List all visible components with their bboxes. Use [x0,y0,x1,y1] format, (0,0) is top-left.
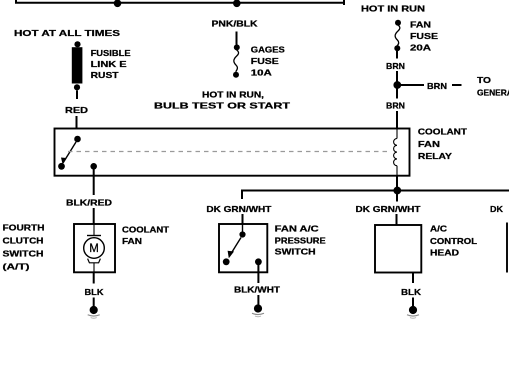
wire BLK to ground [93,298,95,307]
svg-text:CLUTCH: CLUTCH [3,236,44,246]
svg-text:BLK/RED: BLK/RED [66,197,112,207]
svg-text:LINK E: LINK E [91,59,128,69]
wire BLK/WHT to ground [257,295,259,305]
relay coil lead in [396,129,398,139]
ground (control head) [407,306,419,318]
junction dot on bus (PNK/BLK tap) [233,0,241,7]
relay coil lead out [396,166,398,176]
svg-text:A/C: A/C [430,223,447,233]
svg-text:DK GRN/WHT: DK GRN/WHT [356,204,422,214]
svg-text:FUSE: FUSE [410,31,439,41]
fusible link E top terminal dot [74,41,80,47]
wire dash to generator [452,84,462,86]
pressure switch arm arrowhead [228,251,234,258]
svg-text:FUSIBLE: FUSIBLE [91,48,131,58]
motor brush bar [87,235,101,237]
relay actuation dashed line [68,151,391,153]
wire BRN to junction [396,71,398,82]
svg-text:TO: TO [477,75,492,85]
svg-text:FAN: FAN [410,20,431,30]
svg-text:COOLANT: COOLANT [418,127,468,137]
wire relay output inside box [93,170,95,177]
wire to pressure switch [242,214,244,224]
fusible link E body [72,47,83,83]
svg-text:PNK/BLK: PNK/BLK [212,18,258,28]
ground (coolant fan) [88,306,100,318]
pressure switch common dot [239,231,245,237]
fan fuse bottom dot [394,45,400,51]
motor lead bottom [93,263,95,273]
svg-text:SWITCH: SWITCH [275,247,316,257]
relay switch arm arrowhead [61,158,67,165]
svg-text:RED: RED [65,105,88,115]
wire coolant fan to BLK [93,272,95,283]
svg-text:BLK: BLK [85,287,104,297]
pressure switch contact dot [223,258,230,265]
svg-text:FOURTH: FOURTH [3,223,45,233]
svg-text:(A/T): (A/T) [3,262,30,272]
svg-text:HOT AT ALL TIMES: HOT AT ALL TIMES [14,28,121,38]
coolant fan relay box [55,129,410,176]
svg-text:M: M [89,243,99,255]
svg-text:DK: DK [490,204,503,214]
svg-text:FAN: FAN [122,236,142,246]
partial box at right edge [506,223,508,273]
fan fuse top dot [395,20,401,26]
relay switch contact dot [58,163,65,170]
svg-text:BULB TEST OR START: BULB TEST OR START [154,101,291,111]
svg-text:FAN A/C: FAN A/C [275,223,319,233]
wire relay to BLK/RED [93,176,95,195]
svg-text:BRN: BRN [386,61,405,71]
wire control head output [412,273,414,284]
relay output contact dot [90,163,97,170]
pressure switch output dot [255,258,262,265]
wire to control head [396,214,398,225]
wire relay coil to bus junction [396,176,398,191]
svg-text:CONTROL: CONTROL [430,236,477,246]
fan fuse element [395,25,400,46]
svg-text:DK GRN/WHT: DK GRN/WHT [206,204,272,214]
junction dot on bus left [114,0,122,7]
dk grn/wht bus line [242,191,509,200]
junction node on bus [393,187,401,195]
wire BLK to ground (control head) [412,298,414,307]
svg-text:BRN: BRN [427,81,447,91]
svg-text:RUST: RUST [91,70,120,80]
fusible link E bottom terminal dot [74,84,80,90]
gages fuse element [234,50,239,72]
svg-text:FAN: FAN [418,139,440,149]
ground (pressure switch) [252,304,264,316]
relay switch common dot [74,136,81,143]
a/c control head box [375,225,421,273]
fuse block bus (cut-off box at top) [15,0,344,5]
motor M circle [84,238,105,259]
wire splice down [396,89,398,99]
svg-text:10A: 10A [251,67,272,77]
wire BLK/RED to coolant fan [93,208,95,224]
gages fuse top dot [234,44,240,50]
svg-text:HOT IN RUN,: HOT IN RUN, [202,89,264,99]
wire BRN into relay box [396,111,398,129]
fan a/c pressure switch box [219,224,267,272]
motor lower brush cup [88,259,101,263]
relay switch arm [63,142,76,163]
wire splice to BRN branch label [401,84,424,86]
svg-text:SWITCH: SWITCH [3,249,44,259]
pressure switch wire into box [242,224,244,232]
wire PNK/BLK to gages fuse [236,32,238,45]
pressure switch arm [230,238,242,257]
svg-text:GENERATOR: GENERATOR [477,88,509,98]
wire RED into relay box [76,116,78,129]
svg-text:BLK: BLK [401,287,421,297]
svg-text:HOT IN RUN: HOT IN RUN [361,3,425,13]
relay coil [394,139,397,166]
svg-text:GAGES: GAGES [251,44,285,54]
wire junction down [396,194,398,202]
svg-text:20A: 20A [410,43,431,53]
gages fuse bottom dot [233,72,239,78]
svg-text:PRESSURE: PRESSURE [275,235,326,245]
svg-text:BLK/WHT: BLK/WHT [234,285,281,295]
coolant fan motor box [74,224,115,272]
wire pressure switch output [257,265,259,283]
wire fan fuse to BRN [396,51,398,59]
junction node BRN splice [393,81,401,89]
svg-text:HEAD: HEAD [430,248,459,258]
motor lead top [93,224,95,235]
wire fusible link to RED label [76,90,78,99]
svg-text:BRN: BRN [386,101,405,111]
svg-text:COOLANT: COOLANT [122,224,170,234]
svg-text:RELAY: RELAY [418,151,452,161]
svg-text:FUSE: FUSE [251,56,280,66]
